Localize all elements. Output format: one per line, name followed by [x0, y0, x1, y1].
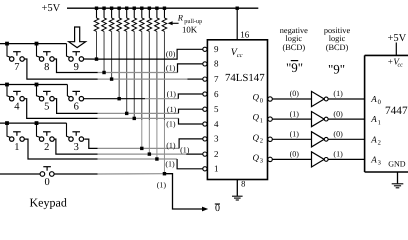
svg-text:2: 2 [214, 149, 219, 159]
svg-text:2: 2 [378, 140, 381, 147]
svg-text:10K: 10K [182, 25, 198, 35]
svg-text:3: 3 [214, 134, 219, 144]
svg-text:Q: Q [253, 132, 260, 142]
svg-text:(1): (1) [166, 119, 176, 128]
svg-text:(1): (1) [290, 109, 300, 118]
svg-text:8: 8 [214, 59, 219, 69]
svg-text:(1): (1) [167, 89, 177, 98]
svg-text:"9": "9" [328, 61, 345, 76]
svg-text:"9": "9" [286, 60, 303, 75]
svg-text:(BCD): (BCD) [283, 43, 306, 52]
svg-text:(0): (0) [166, 49, 176, 58]
svg-text:(1): (1) [333, 89, 343, 98]
svg-text:5: 5 [214, 104, 219, 114]
svg-text:(0): (0) [333, 130, 343, 139]
svg-text:cc: cc [398, 63, 404, 69]
svg-text:(1): (1) [166, 141, 176, 150]
svg-text:7447: 7447 [385, 105, 408, 117]
svg-text:0: 0 [215, 203, 220, 214]
svg-text:Q: Q [253, 112, 260, 122]
svg-text:4: 4 [14, 102, 20, 113]
svg-text:74LS147: 74LS147 [225, 72, 265, 84]
svg-text:9: 9 [74, 62, 79, 73]
svg-text:A: A [370, 134, 377, 144]
svg-text:6: 6 [214, 89, 219, 99]
svg-text:(1): (1) [165, 160, 175, 169]
svg-text:Q: Q [253, 152, 260, 162]
svg-text:(1): (1) [333, 150, 343, 159]
svg-text:5: 5 [44, 102, 49, 113]
svg-text:cc: cc [237, 52, 243, 59]
svg-text:GND: GND [388, 160, 406, 169]
svg-text:(0): (0) [290, 89, 300, 98]
svg-text:0: 0 [260, 97, 263, 104]
svg-text:(1): (1) [157, 181, 167, 190]
svg-text:(0): (0) [290, 150, 300, 159]
svg-text:+5V: +5V [42, 3, 61, 14]
svg-text:3: 3 [378, 160, 381, 167]
svg-text:6: 6 [74, 102, 79, 113]
svg-text:(1): (1) [180, 145, 190, 154]
svg-text:A: A [370, 94, 377, 104]
svg-text:4: 4 [214, 119, 219, 129]
svg-text:(BCD): (BCD) [326, 43, 349, 52]
svg-text:8: 8 [44, 62, 49, 73]
svg-text:0: 0 [44, 177, 49, 188]
svg-text:(0): (0) [333, 109, 343, 118]
svg-text:1: 1 [14, 142, 19, 153]
svg-text:Q: Q [253, 92, 260, 102]
svg-text:7: 7 [214, 74, 219, 84]
svg-text:A: A [370, 114, 377, 124]
svg-text:3: 3 [74, 142, 79, 153]
svg-text:2: 2 [260, 138, 263, 145]
svg-text:16: 16 [240, 29, 250, 39]
svg-text:(1): (1) [167, 105, 177, 114]
svg-text:2: 2 [44, 142, 49, 153]
svg-text:Keypad: Keypad [30, 196, 67, 210]
svg-text:R: R [177, 13, 184, 23]
svg-text:8: 8 [241, 178, 245, 188]
svg-text:0: 0 [378, 99, 381, 106]
svg-text:3: 3 [260, 158, 263, 165]
svg-text:logic: logic [286, 34, 303, 43]
svg-text:+5V: +5V [388, 33, 407, 44]
svg-text:(1): (1) [166, 63, 176, 72]
svg-text:(1): (1) [290, 130, 300, 139]
svg-text:1: 1 [378, 119, 381, 126]
svg-text:7: 7 [14, 62, 19, 73]
svg-text:1: 1 [260, 117, 263, 124]
svg-text:A: A [370, 154, 377, 164]
svg-text:1: 1 [214, 164, 219, 174]
svg-text:9: 9 [214, 44, 219, 54]
svg-text:logic: logic [329, 34, 346, 43]
